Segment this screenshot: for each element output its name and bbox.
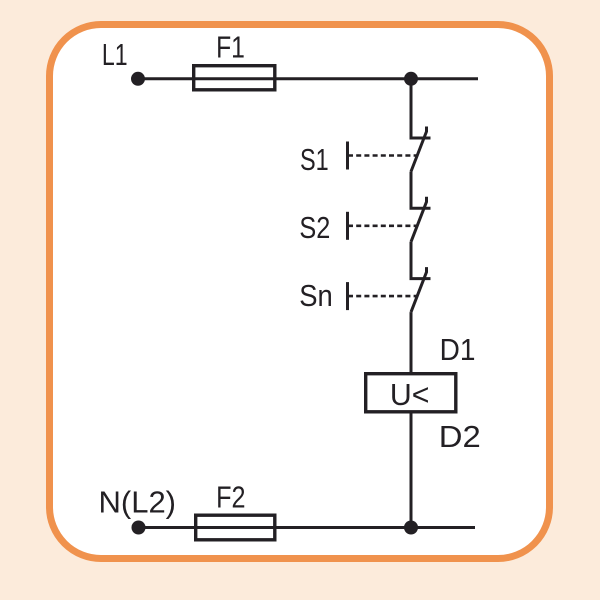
switch S1 dashed link [348,154,417,157]
wire: vertical between S2 and Sn [411,242,431,279]
switch S2 actuator bar [346,212,349,240]
svg-text:D1: D1 [440,332,476,367]
svg-text:F1: F1 [216,30,245,65]
wire: vertical from Sn to relay coil [410,312,413,372]
switch Sn contact blade [411,267,427,312]
wire: vertical between S1 and S2 [411,172,431,209]
svg-text:S2: S2 [299,210,330,245]
wire: vertical from relay coil to bottom node [410,414,413,528]
svg-text:Sn: Sn [299,278,333,313]
svg-text:D2: D2 [439,419,481,454]
switch S1 actuator bar [346,142,349,170]
svg-text:U<: U< [390,377,430,412]
undervoltage relay coil U< [366,374,456,412]
svg-text:L1: L1 [102,37,128,72]
switch Sn actuator bar [346,282,349,310]
switch Sn dashed link [348,295,417,298]
svg-text:S1: S1 [300,142,329,177]
wire: top horizontal L1 line [138,77,478,80]
junction node top [404,72,418,86]
switch S1 contact blade [411,127,427,172]
rounded panel frame [50,25,550,559]
wire: bottom horizontal N line [139,526,476,529]
svg-text:N(L2): N(L2) [99,485,177,520]
fuse F2 [196,515,275,540]
switch S2 dashed link [348,225,417,228]
junction node bottom [404,521,418,535]
terminal dot N(L2) [132,521,146,535]
terminal dot L1 [131,72,145,86]
wire: vertical drop to switch S1 [411,79,431,138]
switch S2 contact blade [411,197,427,242]
fuse F1 [194,66,275,90]
svg-text:F2: F2 [216,480,245,515]
